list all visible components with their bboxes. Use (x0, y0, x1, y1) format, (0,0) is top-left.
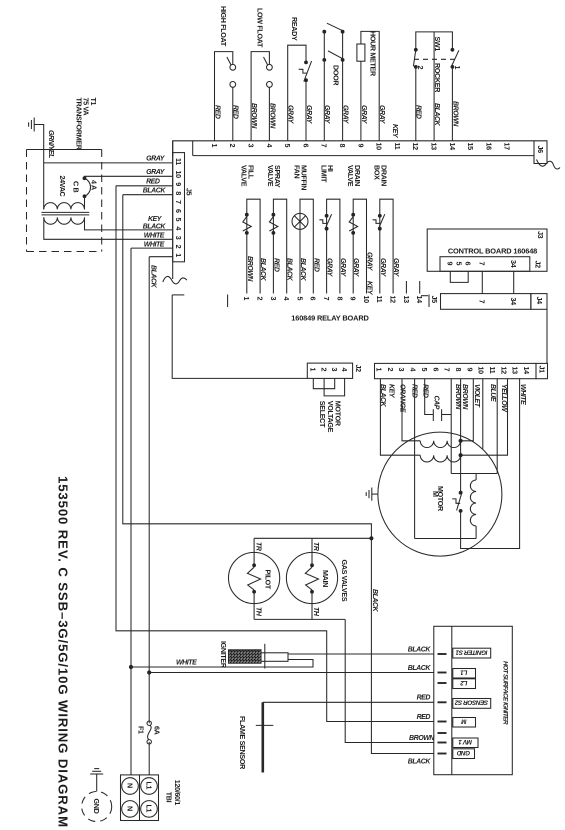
svg-text:L1: L1 (144, 805, 153, 813)
wire BLACK J5 pin8 to gas valve TR bus (123, 195, 372, 539)
motor bottom bus (415, 538, 477, 540)
wire TH bus (254, 618, 345, 620)
svg-text:KEY: KEY (366, 281, 373, 296)
svg-text:1: 1 (375, 368, 384, 372)
svg-text:VALVE: VALVE (266, 165, 275, 187)
svg-text:J4: J4 (535, 297, 544, 305)
hour meter wires and bracket (361, 31, 379, 140)
svg-text:N: N (125, 806, 134, 811)
transformer T1 secondary winding (24VAC) (44, 203, 85, 210)
switch HIGH FLOAT contacts (230, 64, 236, 70)
switch HIGH FLOAT wires and bracket (215, 52, 233, 141)
svg-text:BROWN: BROWN (246, 256, 253, 282)
svg-text:4: 4 (409, 368, 418, 372)
svg-text:TR: TR (312, 542, 319, 551)
svg-text:10: 10 (362, 296, 371, 304)
svg-text:TRANSFORMER: TRANSFORMER (74, 98, 83, 151)
svg-text:4: 4 (340, 368, 349, 372)
switch DOOR upper contacts (322, 30, 326, 34)
svg-text:L1: L1 (144, 782, 153, 790)
svg-text:BLACK: BLACK (408, 665, 432, 672)
svg-text:3: 3 (174, 236, 183, 240)
svg-text:KEY: KEY (391, 124, 398, 139)
svg-text:3: 3 (247, 144, 256, 148)
svg-text:WHITE: WHITE (144, 232, 165, 239)
break squiggle at J6 tail (537, 160, 561, 169)
wire J5 left frame (172, 141, 174, 279)
igniter mount tick (264, 644, 266, 669)
wire DOOR pin7 (323, 32, 325, 141)
motor M body circle (378, 432, 502, 556)
connector J5 body (173, 153, 185, 262)
svg-text:J5: J5 (430, 296, 439, 304)
terminal plate SENSOR S2 (453, 699, 491, 709)
svg-text:160849 RELAY BOARD: 160849 RELAY BOARD (291, 314, 369, 323)
svg-text:153500 REV. C SSB–3G/5G/10G: 153500 REV. C SSB–3G/5G/10G WIRING DIAGR… (55, 476, 70, 828)
ground symbol (transformer earth) (33, 118, 35, 132)
wire KEY BLACK J1 pin1 to motor run winding 2 (380, 379, 420, 456)
svg-text:BOX: BOX (373, 165, 382, 180)
svg-text:3: 3 (330, 368, 339, 372)
svg-text:5: 5 (295, 297, 304, 301)
control board box (427, 229, 547, 271)
solenoid FILL VALVE (relay pins 1,2) (247, 199, 260, 293)
switch DOOR lower contacts (322, 58, 326, 62)
svg-text:1: 1 (453, 66, 462, 70)
circuit breaker CB contacts (83, 176, 87, 180)
svg-text:GRAY: GRAY (366, 252, 373, 272)
wire VIOLET J1 pin10 to motor frame (482, 379, 484, 449)
svg-text:HOT SURFACE IGNITER: HOT SURFACE IGNITER (502, 661, 509, 725)
wire J5 pin 1 to fuse drop (149, 256, 173, 258)
svg-text:1: 1 (210, 144, 219, 148)
svg-text:L1: L1 (460, 668, 468, 675)
wire BROWN J1 pin9 to run winding 1 tap (461, 379, 474, 441)
svg-text:2: 2 (256, 297, 265, 301)
solenoid SPRAY VALVE (relay pins 3,4) (273, 199, 286, 293)
fan MUFFIN FAN (relay pins 5,6) (300, 199, 313, 293)
ground symbol (motor frame) (372, 493, 378, 495)
svg-text:GRAY: GRAY (146, 156, 166, 163)
svg-text:7: 7 (174, 200, 183, 204)
svg-text:M: M (461, 717, 467, 724)
svg-text:GND: GND (92, 799, 101, 814)
svg-text:1: 1 (309, 368, 318, 372)
wire DOOR pin8 (342, 32, 344, 141)
svg-text:RED: RED (417, 695, 431, 702)
svg-text:SENSOR S2: SENSOR S2 (454, 699, 488, 706)
svg-text:VALVE: VALVE (240, 165, 249, 187)
svg-text:DOOR: DOOR (331, 65, 340, 86)
svg-text:GND: GND (456, 749, 470, 756)
hour meter body (357, 44, 365, 61)
terminal block TB1 body (121, 775, 159, 821)
svg-text:14: 14 (415, 296, 424, 304)
svg-text:VALVE: VALVE (346, 165, 355, 187)
svg-text:RED: RED (232, 105, 239, 119)
svg-text:9: 9 (465, 368, 474, 372)
svg-text:RED: RED (415, 105, 422, 119)
switch DRAIN BOX (relay pins 11,12) (380, 199, 393, 293)
switch SW1 pole 1 contacts (451, 48, 455, 52)
wire BLACK line to HSI L1 (149, 672, 434, 674)
jumper J2 pins 2-4 (324, 378, 345, 396)
motor run winding 1 (420, 441, 460, 448)
svg-text:FAN: FAN (293, 165, 302, 178)
svg-text:KEY: KEY (148, 216, 163, 223)
flame sensor probe (261, 702, 264, 772)
TB1 terminal L1 (bottom) (141, 801, 158, 818)
wire ORANGE J1 pin3 to motor run winding 1 (402, 379, 420, 441)
switch SW1 mechanical link (dashed) (414, 58, 455, 60)
svg-text:LIMIT: LIMIT (319, 165, 328, 183)
svg-text:7: 7 (320, 144, 329, 148)
svg-text:7: 7 (322, 297, 331, 301)
fuse F1 symbol (147, 721, 151, 725)
svg-text:5: 5 (174, 218, 183, 222)
svg-text:2: 2 (416, 66, 425, 70)
jumper control board pins 9-6 (450, 271, 468, 282)
svg-text:WHITE: WHITE (176, 659, 197, 666)
svg-text:12: 12 (411, 143, 420, 151)
switch LOW FLOAT wires and bracket (251, 52, 269, 141)
valve PILOT coil (253, 538, 255, 565)
svg-text:BLACK: BLACK (408, 759, 432, 766)
svg-text:GRAY: GRAY (392, 258, 399, 278)
terminal plate MV 1 (453, 738, 478, 748)
svg-text:J2: J2 (533, 261, 542, 269)
svg-text:MAIN: MAIN (321, 570, 330, 587)
switch SW1 bracket and wires (416, 32, 453, 50)
switch HI LIMIT (relay pins 7,8) (327, 199, 340, 293)
switch READY contacts (304, 61, 308, 65)
wire J4 to J1 frame (546, 309, 548, 363)
solenoid DRAIN VALVE (relay pins 9,10) (353, 199, 366, 293)
svg-text:HOUR METER: HOUR METER (368, 31, 377, 77)
svg-text:6A: 6A (153, 726, 162, 735)
svg-text:10: 10 (477, 367, 486, 375)
TB1 terminal N (bottom) (122, 801, 139, 818)
svg-text:10: 10 (174, 171, 183, 179)
wire RED J5 pin9 to HSI M (long run) (116, 186, 434, 722)
svg-text:GRAY: GRAY (342, 105, 349, 125)
junction TR bus feed (369, 536, 373, 540)
svg-text:BROWN: BROWN (268, 103, 275, 129)
terminal plate GND (453, 749, 475, 759)
svg-text:GRAY: GRAY (287, 105, 294, 125)
relay board pin row end ticks (227, 295, 229, 308)
connector J1 body (375, 363, 537, 378)
wire fuse F1 to TB1 L1 (148, 742, 150, 775)
svg-text:14: 14 (448, 143, 457, 151)
wire WHITE J1 pin14 to centrifugal switch (461, 379, 520, 549)
svg-text:VIOLET: VIOLET (473, 384, 480, 408)
wire KEY BLACK transformer primary to J5 pin 4 (85, 217, 173, 230)
svg-text:TR: TR (254, 542, 261, 551)
wire RED J1 pin4 to motor common bus (414, 379, 416, 539)
svg-text:7: 7 (443, 368, 452, 372)
svg-text:8: 8 (335, 297, 344, 301)
svg-text:2: 2 (228, 144, 237, 148)
wire BLACK line J5 pin1 to fuse F1 (148, 257, 150, 724)
svg-text:GRAY: GRAY (339, 258, 346, 278)
svg-text:CONTROL BOARD 160648: CONTROL BOARD 160648 (448, 247, 537, 256)
junction WHITE igniter tap (129, 665, 133, 669)
connector J6 strip body (173, 141, 547, 164)
svg-text:BROWN: BROWN (451, 101, 458, 127)
svg-text:IGNITER S1: IGNITER S1 (455, 648, 487, 655)
svg-text:GRAY: GRAY (305, 105, 312, 125)
svg-text:J2: J2 (354, 365, 363, 373)
motor start winding (475, 474, 477, 481)
svg-text:GRAY: GRAY (323, 105, 330, 125)
junction run winding 1 tap (459, 439, 463, 443)
svg-text:34: 34 (509, 298, 518, 306)
valve MAIN body (286, 552, 337, 603)
svg-text:12: 12 (499, 367, 508, 375)
svg-text:C B: C B (72, 181, 81, 192)
switch SW1 pole 2 contacts (414, 48, 418, 52)
svg-text:N: N (125, 783, 134, 788)
svg-text:GRAY: GRAY (379, 258, 386, 278)
wire WHITE J5 pin 2 to neutral drop (131, 247, 173, 249)
svg-text:J1: J1 (538, 366, 547, 374)
wire CB to secondary winding (84, 196, 86, 209)
svg-text:13: 13 (511, 367, 520, 375)
svg-text:J6: J6 (536, 146, 545, 154)
svg-text:YELLOW: YELLOW (500, 384, 507, 413)
svg-text:13: 13 (402, 296, 411, 304)
wire BROWN TH bus to HSI MV1 (345, 619, 434, 742)
svg-text:6: 6 (464, 262, 473, 266)
TB1 terminal N (top) (122, 778, 139, 795)
valve MAIN coil (311, 538, 313, 565)
switch LOW FLOAT contacts (267, 64, 273, 70)
connector J4 body (441, 294, 531, 310)
svg-text:5: 5 (283, 144, 292, 148)
svg-text:GRAY: GRAY (326, 258, 333, 278)
wire RED J1 pin5 to capacitor (425, 379, 434, 415)
igniter sleeve (261, 653, 288, 662)
svg-text:IGNITER: IGNITER (219, 641, 228, 669)
terminal plate M (453, 718, 476, 728)
centrifugal switch contacts (459, 491, 463, 495)
svg-text:HIGH FLOAT: HIGH FLOAT (219, 6, 228, 47)
svg-text:GRAY: GRAY (378, 105, 385, 125)
svg-text:BLACK: BLACK (299, 258, 306, 282)
svg-text:PILOT: PILOT (264, 570, 273, 590)
svg-text:5: 5 (420, 368, 429, 372)
relay pin 13 stub (405, 281, 407, 294)
svg-text:15: 15 (466, 143, 475, 151)
svg-text:J3: J3 (536, 231, 545, 239)
wire GRAY transformer to J5 pin 11 (44, 162, 173, 164)
igniter heating element (hatched) (229, 650, 262, 663)
svg-text:10: 10 (375, 143, 384, 151)
svg-text:BLACK: BLACK (433, 103, 440, 127)
svg-text:34: 34 (509, 260, 518, 268)
svg-text:BLACK: BLACK (259, 258, 266, 282)
svg-text:6: 6 (174, 209, 183, 213)
wire GRN/YEL ground to transformer secondary (34, 125, 44, 210)
svg-text:9: 9 (446, 262, 455, 266)
jumper J2 pins 1-3 (313, 378, 334, 388)
svg-text:BLACK: BLACK (143, 188, 167, 195)
svg-text:KEY: KEY (387, 384, 394, 399)
junction run winding 2 tap (459, 453, 463, 457)
svg-text:SELECT: SELECT (318, 401, 327, 428)
svg-text:11: 11 (393, 143, 402, 150)
svg-text:RED: RED (272, 258, 279, 272)
terminal plate L1 (453, 669, 476, 679)
svg-text:7: 7 (478, 300, 487, 304)
svg-text:BLACK: BLACK (371, 589, 378, 613)
svg-text:F1: F1 (137, 726, 146, 734)
svg-text:J5: J5 (185, 188, 194, 196)
switch READY wires and bracket (288, 45, 306, 141)
svg-text:1: 1 (174, 253, 183, 257)
break squiggle below J5 (163, 276, 187, 283)
svg-text:WHITE: WHITE (519, 384, 526, 405)
ground symbol (supply earth) (96, 774, 98, 792)
svg-text:4: 4 (282, 297, 291, 301)
svg-text:9: 9 (174, 182, 183, 186)
svg-text:8: 8 (338, 144, 347, 148)
svg-text:13: 13 (430, 143, 439, 151)
svg-text:RED: RED (312, 258, 319, 272)
svg-text:RED: RED (213, 105, 220, 119)
svg-text:12: 12 (389, 296, 398, 304)
motor run winding 2 (420, 455, 460, 462)
svg-text:GAS VALVES: GAS VALVES (340, 560, 349, 602)
svg-text:GRAY: GRAY (352, 258, 359, 278)
connector J2 body (307, 363, 352, 378)
svg-text:FLAME SENSOR: FLAME SENSOR (238, 716, 247, 770)
svg-text:LOW FLOAT: LOW FLOAT (256, 8, 265, 48)
svg-text:5: 5 (454, 262, 463, 266)
wire BLUE J1 pin12 to start winding top (496, 379, 498, 474)
svg-text:6: 6 (301, 144, 310, 148)
svg-text:2: 2 (174, 245, 183, 249)
wire WHITE neutral to igniter (131, 660, 313, 668)
svg-text:BLACK: BLACK (408, 646, 432, 653)
svg-text:BROWN: BROWN (250, 103, 257, 129)
svg-text:BLUE: BLUE (489, 384, 496, 402)
svg-text:BLACK: BLACK (143, 223, 167, 230)
svg-text:11: 11 (375, 296, 384, 303)
TB1 terminal L1 (top) (141, 778, 158, 795)
wire capacitor to J1 pin7 start feed (442, 414, 452, 416)
svg-text:8: 8 (454, 368, 463, 372)
svg-text:RED: RED (417, 714, 431, 721)
svg-text:L2: L2 (460, 679, 468, 686)
svg-text:CAP: CAP (432, 396, 439, 410)
wire GRAY CB to J5 pin 10 (85, 176, 173, 178)
relay pin 14 stub (419, 281, 421, 294)
svg-text:MV 1: MV 1 (458, 738, 472, 745)
svg-text:RED: RED (410, 384, 417, 398)
svg-text:TH: TH (254, 607, 261, 617)
wire WHITE neutral J5 pin2 to TB1 N (130, 248, 132, 775)
wire BROWN J1 pin8 through taps to centrifugal switch (460, 379, 462, 493)
svg-text:RED: RED (146, 179, 160, 186)
svg-text:9: 9 (356, 144, 365, 148)
svg-text:WHITE: WHITE (144, 241, 165, 248)
transformer T1 dashed enclosure (27, 149, 102, 151)
wire RED J5 pin 9 corner (116, 185, 173, 187)
svg-text:4: 4 (174, 226, 183, 230)
wire BLACK J5 pin 8 corner (123, 194, 173, 196)
svg-text:BROWN: BROWN (461, 384, 468, 410)
svg-text:6: 6 (309, 297, 318, 301)
svg-text:2: 2 (386, 368, 395, 372)
svg-text:11: 11 (488, 367, 497, 374)
terminal plate IGNITER S1 (453, 648, 491, 658)
svg-text:11: 11 (174, 158, 183, 165)
circuit breaker CB arc (85, 178, 91, 196)
svg-text:1: 1 (242, 297, 251, 301)
relay board outline corner to J2 (172, 294, 184, 296)
svg-text:MOTOR: MOTOR (436, 486, 445, 512)
svg-text:GRAY: GRAY (146, 169, 166, 176)
wire WHITE transformer primary to J5 pin 3 (44, 217, 173, 239)
wire flame sensor to HSI S2 (263, 701, 434, 703)
svg-text:24VAC: 24VAC (58, 176, 67, 197)
wire J1 pin7 to start winding top (450, 379, 452, 474)
wire control board pin34 to J4 (513, 271, 515, 293)
svg-text:GRAY: GRAY (360, 105, 367, 125)
transformer T1 primary winding (44, 217, 85, 224)
svg-text:2: 2 (320, 368, 329, 372)
hot surface igniter module box (434, 626, 513, 774)
wire BLACK TR bus to HSI GND (371, 538, 434, 753)
svg-text:7: 7 (478, 262, 487, 266)
wire TR bus (254, 537, 371, 539)
svg-text:BLACK: BLACK (150, 265, 157, 289)
svg-text:17: 17 (503, 143, 512, 151)
wire YELLOW J1 pin13 to run winding 2 tap (461, 379, 508, 456)
svg-text:4: 4 (265, 144, 274, 148)
svg-text:TH: TH (312, 607, 319, 617)
svg-text:READY: READY (290, 17, 299, 41)
valve PILOT body (229, 552, 280, 603)
svg-text:3: 3 (397, 368, 406, 372)
wire control board pin7 to J4 (481, 271, 483, 293)
node GND (dashed circle) (82, 792, 112, 822)
transformer T1 core (42, 211, 90, 213)
terminal plate L2 (453, 679, 476, 689)
svg-text:BROWN: BROWN (409, 735, 435, 742)
svg-text:BLACK: BLACK (286, 258, 293, 282)
control board J2 edge connector (440, 257, 530, 272)
svg-text:GRN/YEL: GRN/YEL (47, 130, 54, 158)
svg-text:6: 6 (431, 368, 440, 372)
svg-text:8: 8 (174, 191, 183, 195)
HSI terminal dashes (438, 653, 447, 655)
svg-text:TBI: TBI (165, 792, 174, 803)
capacitor CAP plates (432, 409, 434, 421)
svg-text:3: 3 (269, 297, 278, 301)
svg-text:16: 16 (484, 143, 493, 151)
junction BLACK line tap (147, 670, 151, 674)
svg-text:9: 9 (349, 297, 358, 301)
wire BLACK igniter to HSI S1 (288, 653, 434, 655)
svg-text:14: 14 (522, 367, 531, 375)
